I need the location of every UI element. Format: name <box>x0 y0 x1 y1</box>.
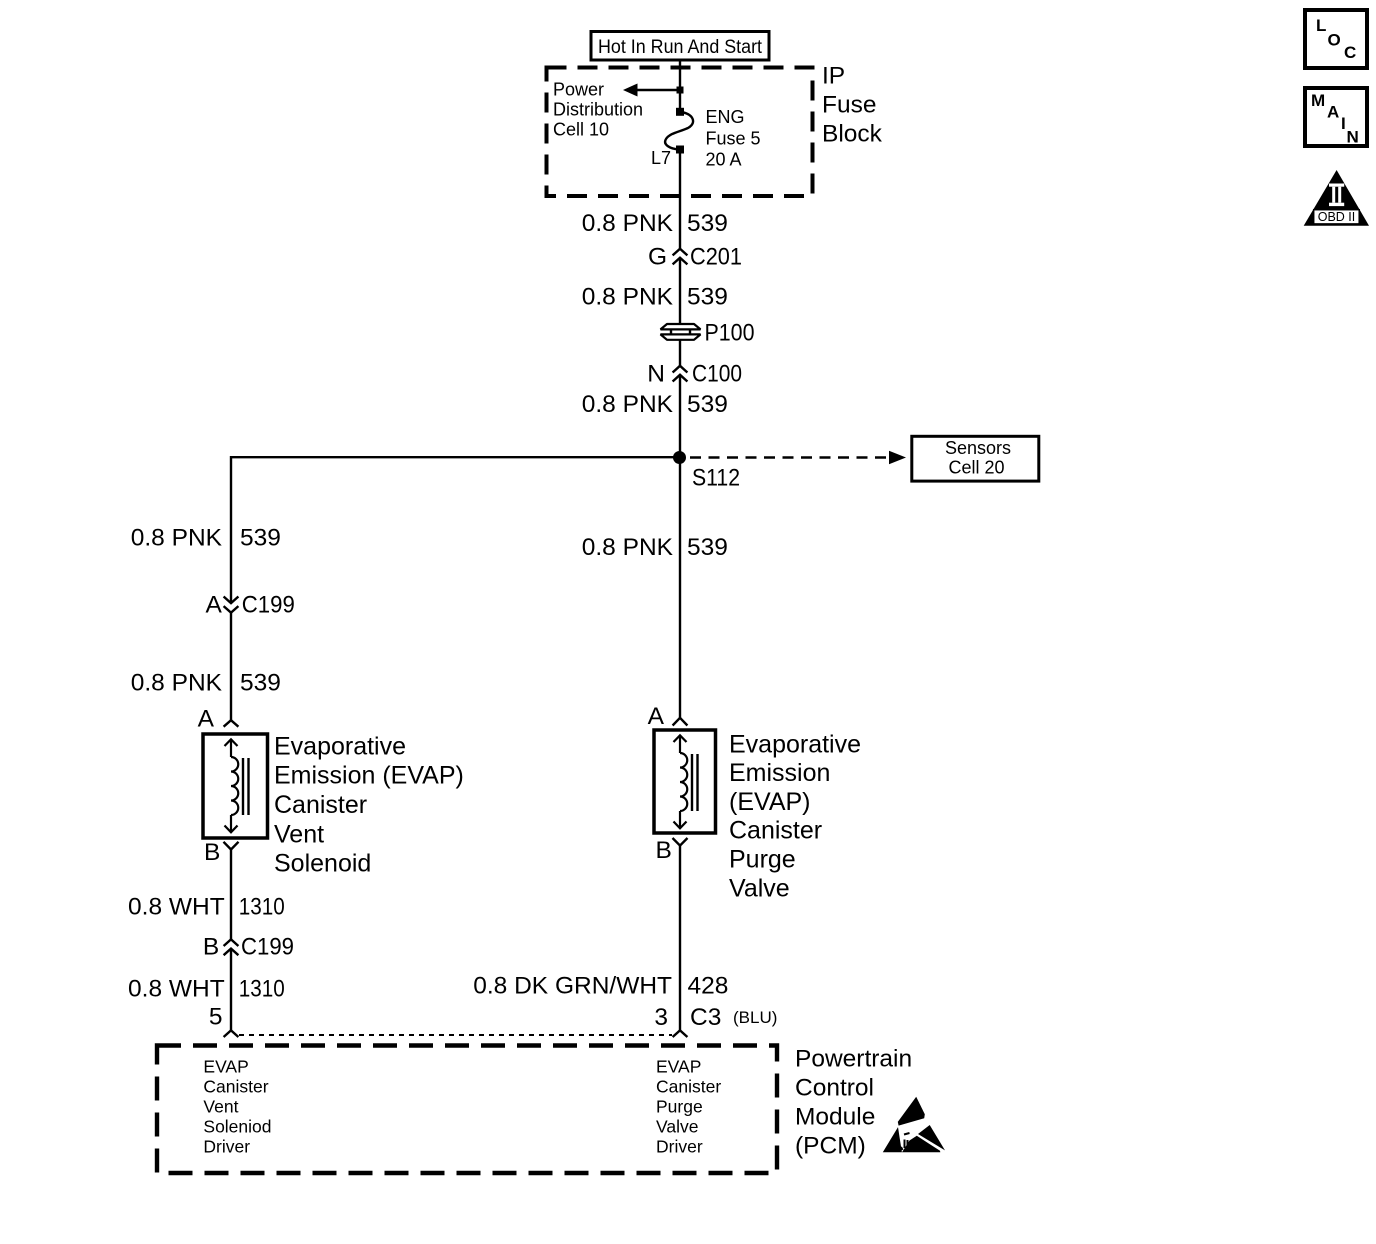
svg-text:Cell 20: Cell 20 <box>948 458 1004 478</box>
svg-text:B: B <box>203 934 219 961</box>
svg-text:0.8 PNK: 0.8 PNK <box>582 210 674 237</box>
svg-text:ENG: ENG <box>706 107 745 127</box>
symbol: LOC legend box <box>1305 10 1367 68</box>
label: 0.8 WHT 1310 (above C199 B) <box>128 894 285 921</box>
PCM dashed enclosure <box>157 1046 777 1174</box>
label: EVAP Canister Vent Soleniod Driver <box>203 1056 271 1156</box>
svg-text:(EVAP): (EVAP) <box>729 788 811 816</box>
svg-text:OBD II: OBD II <box>1318 210 1356 224</box>
wire: branch to power distribution <box>637 89 680 91</box>
symbol: OBD II triangle <box>1304 170 1369 226</box>
ESD warning symbol <box>883 1097 945 1153</box>
wire: S112 down to purge valve <box>679 458 681 718</box>
svg-text:A: A <box>198 706 215 733</box>
PCM connector face (dashed) <box>239 1034 672 1036</box>
svg-text:I: I <box>1341 114 1346 133</box>
wire: P100 to C100 <box>679 340 681 366</box>
svg-text:0.8 WHT: 0.8 WHT <box>128 975 225 1002</box>
svg-text:0.8 PNK: 0.8 PNK <box>582 391 674 418</box>
dashed reference arrow to Sensors Cell 20 <box>690 451 906 464</box>
wire: 0.8 DK GRN/WHT 428 (purge valve to PCM pin 3) <box>679 846 681 1031</box>
label: Evaporative Emission (EVAP) Canister Vent Solenoid <box>274 732 464 877</box>
pin B of purge valve <box>655 837 687 864</box>
svg-text:Evaporative: Evaporative <box>274 732 406 760</box>
symbol: MAIN legend box <box>1305 88 1367 147</box>
svg-text:Canister: Canister <box>203 1076 268 1096</box>
svg-text:N: N <box>647 361 665 388</box>
svg-text:(PCM): (PCM) <box>795 1133 866 1160</box>
connector C199 pin B <box>203 934 294 961</box>
svg-text:Module: Module <box>795 1104 875 1131</box>
svg-text:C199: C199 <box>241 934 294 961</box>
svg-text:Hot In Run And Start: Hot In Run And Start <box>598 37 763 58</box>
wire: feed into fuse block <box>679 60 681 112</box>
svg-text:G: G <box>648 244 667 271</box>
svg-text:0.8 PNK: 0.8 PNK <box>582 534 674 561</box>
svg-text:Power: Power <box>553 80 604 100</box>
connector C199 pin A <box>205 592 294 619</box>
svg-text:Emission (EVAP): Emission (EVAP) <box>274 762 464 790</box>
svg-text:Evaporative: Evaporative <box>729 730 861 758</box>
svg-text:Vent: Vent <box>203 1097 238 1117</box>
label: EVAP Canister Purge Valve Driver <box>656 1056 721 1156</box>
svg-text:Sensors: Sensors <box>945 438 1011 458</box>
connector C100 pin N <box>647 361 742 388</box>
wire: S112 branch left <box>231 457 680 603</box>
svg-text:L: L <box>1316 16 1326 35</box>
label: 0.8 PNK 539 (right, above purge valve) <box>582 534 728 561</box>
svg-text:539: 539 <box>240 525 281 552</box>
svg-text:Valve: Valve <box>729 874 790 902</box>
svg-text:539: 539 <box>687 284 728 311</box>
svg-text:Solenoid: Solenoid <box>274 850 371 878</box>
svg-text:C: C <box>1344 43 1356 62</box>
label: Powertrain Control Module (PCM) <box>795 1045 912 1159</box>
wire: fuse output 0.8 PNK 539 <box>679 149 681 249</box>
IP Fuse Block dashed enclosure <box>547 68 813 197</box>
svg-text:0.8 PNK: 0.8 PNK <box>131 525 223 552</box>
svg-text:C100: C100 <box>692 361 742 388</box>
junction at fuse feed <box>677 87 684 94</box>
label: IP Fuse Block <box>822 63 883 148</box>
svg-text:5: 5 <box>209 1003 223 1030</box>
svg-text:IP: IP <box>822 63 845 90</box>
svg-text:C3: C3 <box>690 1004 721 1031</box>
label: Power Distribution Cell 10 <box>553 80 643 140</box>
svg-text:O: O <box>1328 30 1341 49</box>
svg-text:B: B <box>204 839 220 866</box>
wire: C100 to splice S112 <box>679 375 681 458</box>
svg-text:Driver: Driver <box>203 1137 250 1157</box>
PCM pin 3 connector C3 (BLU) <box>654 1004 777 1037</box>
svg-text:Canister: Canister <box>656 1076 721 1096</box>
svg-text:Powertrain: Powertrain <box>795 1045 912 1072</box>
svg-text:S112: S112 <box>692 465 740 492</box>
svg-text:1310: 1310 <box>239 975 285 1002</box>
pin B of vent solenoid <box>204 839 239 866</box>
svg-text:Valve: Valve <box>656 1117 698 1137</box>
wire: 0.8 WHT 1310 (solenoid to C199) <box>230 850 232 940</box>
fuse F5 ENG 20A <box>665 108 693 154</box>
label: 0.8 PNK 539 (above S112) <box>582 391 728 418</box>
svg-text:Driver: Driver <box>656 1137 703 1157</box>
svg-text:EVAP: EVAP <box>656 1056 701 1076</box>
svg-text:C199: C199 <box>242 592 295 619</box>
svg-text:0.8 PNK: 0.8 PNK <box>582 284 674 311</box>
splice S112 <box>673 451 686 464</box>
arrow to power distribution <box>623 84 638 97</box>
svg-text:B: B <box>655 837 671 864</box>
svg-text:Block: Block <box>822 121 883 148</box>
svg-text:Purge: Purge <box>729 846 796 874</box>
svg-text:A: A <box>205 592 222 619</box>
svg-text:Soleniod: Soleniod <box>203 1117 271 1137</box>
svg-text:M: M <box>1311 91 1325 110</box>
svg-text:0.8 WHT: 0.8 WHT <box>128 894 225 921</box>
svg-text:Fuse 5: Fuse 5 <box>706 128 761 148</box>
label: Evaporative Emission (EVAP) Canister Purge Valve <box>729 730 861 902</box>
label: 0.8 DK GRN/WHT 428 <box>473 972 728 999</box>
pin A of purge valve <box>648 703 688 730</box>
label: 0.8 WHT 1310 (above PCM) <box>128 975 285 1002</box>
svg-text:428: 428 <box>688 972 729 999</box>
svg-text:0.8 DK GRN/WHT: 0.8 DK GRN/WHT <box>473 972 672 999</box>
wire: 0.8 WHT 1310 (C199 to PCM pin 5) <box>230 949 232 1031</box>
label: 0.8 PNK 539 (left, above C199) <box>131 525 281 552</box>
label: 0.8 PNK 539 (above P100) <box>582 284 728 311</box>
grommet P100 <box>661 320 755 347</box>
svg-text:A: A <box>648 703 665 730</box>
wire: 0.8 PNK 539 (C201 to P100) <box>679 258 681 324</box>
label: 0.8 PNK 539 (above C201) <box>582 210 728 237</box>
solenoid: EVAP canister vent solenoid <box>203 734 268 838</box>
svg-text:L7: L7 <box>651 148 671 168</box>
svg-text:(BLU): (BLU) <box>733 1008 777 1027</box>
svg-text:A: A <box>1327 103 1339 122</box>
node: Sensors Cell 20 box <box>912 436 1039 481</box>
svg-text:539: 539 <box>687 534 728 561</box>
connector C201 pin G <box>648 244 742 271</box>
svg-text:0.8 PNK: 0.8 PNK <box>131 669 223 696</box>
node: Hot In Run And Start feed box <box>591 32 769 61</box>
svg-text:Emission: Emission <box>729 759 830 787</box>
svg-text:539: 539 <box>687 391 728 418</box>
svg-text:539: 539 <box>240 669 281 696</box>
svg-text:539: 539 <box>687 210 728 237</box>
svg-text:C201: C201 <box>690 244 742 271</box>
svg-text:Control: Control <box>795 1074 874 1101</box>
PCM pin 5 <box>209 1003 239 1037</box>
svg-text:Canister: Canister <box>274 791 367 819</box>
svg-text:Canister: Canister <box>729 817 822 845</box>
svg-text:Cell 10: Cell 10 <box>553 120 609 140</box>
svg-text:Vent: Vent <box>274 820 324 848</box>
label: ENG Fuse 5 20 A <box>706 107 761 169</box>
svg-text:Distribution: Distribution <box>553 100 643 120</box>
svg-text:Fuse: Fuse <box>822 92 876 119</box>
svg-text:N: N <box>1347 128 1359 147</box>
svg-text:Purge: Purge <box>656 1097 703 1117</box>
wire: C199 to vent solenoid <box>230 613 232 721</box>
svg-text:EVAP: EVAP <box>203 1056 248 1076</box>
svg-text:P100: P100 <box>705 320 755 347</box>
svg-text:1310: 1310 <box>239 894 285 921</box>
label: 0.8 PNK 539 (left, above solenoid) <box>131 669 281 696</box>
pin A of vent solenoid <box>198 706 239 733</box>
svg-text:20 A: 20 A <box>706 149 742 169</box>
svg-text:3: 3 <box>654 1004 668 1031</box>
solenoid: EVAP canister purge valve <box>654 730 716 833</box>
